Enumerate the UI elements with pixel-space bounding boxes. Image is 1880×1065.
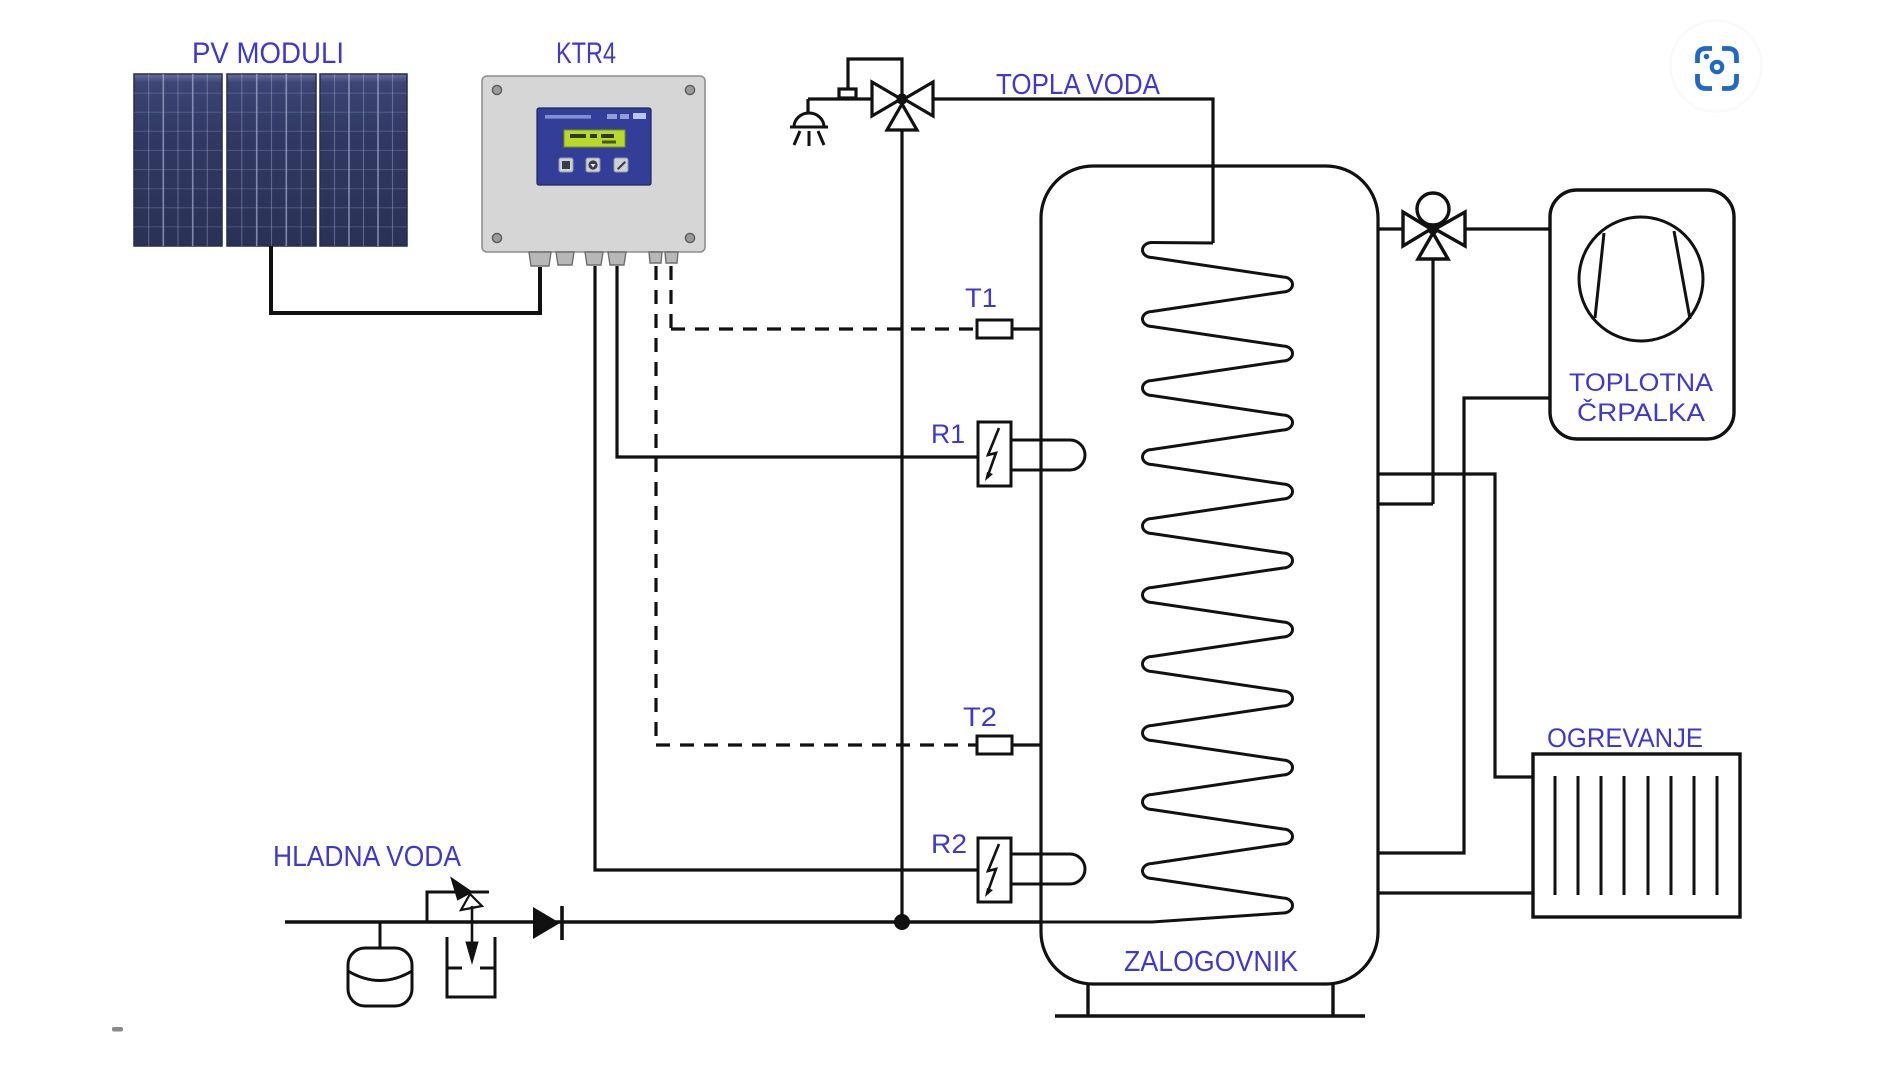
sensor wire KTR4 to T1 (dashed) bbox=[671, 266, 977, 329]
motorized 3-way valve bbox=[1403, 193, 1465, 259]
sensor T2 bbox=[977, 736, 1041, 754]
compressor symbol bbox=[1579, 217, 1703, 341]
svg-text:HLADNA VODA: HLADNA VODA bbox=[273, 841, 462, 873]
svg-text:R1: R1 bbox=[931, 419, 965, 449]
svg-text:TOPLA VODA: TOPLA VODA bbox=[996, 69, 1161, 101]
pipe: cold riser from mixing valve down to cold line bbox=[900, 128, 903, 921]
solar PV module array bbox=[134, 74, 407, 246]
lens icon bbox=[1669, 19, 1763, 113]
svg-text:ČRPALKA: ČRPALKA bbox=[1577, 398, 1705, 427]
svg-text:R2: R2 bbox=[931, 829, 967, 859]
svg-text:OGREVANJE: OGREVANJE bbox=[1547, 723, 1703, 753]
expansion vessel bbox=[348, 922, 412, 1006]
svg-text:KTR4: KTR4 bbox=[556, 37, 616, 70]
check valve bbox=[533, 906, 562, 940]
heat pump box bbox=[1550, 190, 1734, 439]
thermostatic mixing valve bbox=[839, 59, 933, 130]
sensor wire KTR4 to T2 (dashed) bbox=[656, 266, 977, 745]
junction node bbox=[894, 914, 910, 930]
shower symbol bbox=[790, 113, 828, 146]
pipe: radiator return to tank bbox=[1378, 891, 1533, 894]
sensor T1 bbox=[977, 320, 1041, 338]
pipe: tank to radiator supply bbox=[1378, 474, 1533, 777]
hot water pipe: valve to tank coil bbox=[933, 99, 1213, 243]
heater element R2 bbox=[978, 838, 1085, 902]
pipe: heat pump return to tank bbox=[1378, 398, 1550, 853]
wire PV to KTR4 bbox=[271, 246, 540, 313]
pipe: tank to 3-way valve to heat pump bbox=[1378, 227, 1550, 230]
pipe: valve bottom to tank bbox=[1378, 259, 1433, 504]
storage tank ZALOGOVNIK bbox=[1041, 166, 1378, 984]
svg-text:ZALOGOVNIK: ZALOGOVNIK bbox=[1124, 946, 1299, 978]
svg-text:T1: T1 bbox=[965, 283, 997, 313]
cold water main line bbox=[285, 920, 1041, 923]
svg-text:T2: T2 bbox=[963, 702, 997, 732]
pipe: shower branch bbox=[808, 99, 872, 113]
controller KTR4 bbox=[482, 76, 705, 266]
radiator bbox=[1533, 754, 1740, 917]
heater element R1 bbox=[978, 422, 1085, 486]
tank stand bbox=[1055, 984, 1365, 1016]
wire KTR4 to R1 bbox=[617, 266, 978, 457]
wire KTR4 to R2 bbox=[595, 266, 978, 870]
tank coil bbox=[1038, 243, 1293, 923]
small page artifact dash bbox=[112, 1027, 123, 1032]
svg-text:TOPLOTNA: TOPLOTNA bbox=[1569, 369, 1713, 397]
svg-text:PV MODULI: PV MODULI bbox=[192, 37, 344, 70]
safety valve with discharge funnel bbox=[427, 879, 495, 997]
